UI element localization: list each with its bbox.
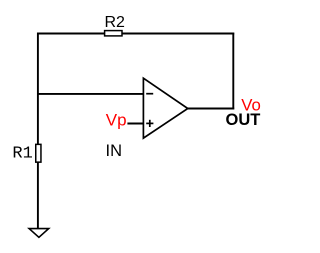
wire non-inverting input wire from Vp	[127, 123, 143, 125]
svg-text:OUT: OUT	[226, 111, 261, 129]
wire top feedback wire	[37, 33, 234, 35]
op-amp U1	[143, 78, 187, 138]
resistor R2	[105, 14, 126, 36]
svg-text:Vp: Vp	[106, 110, 127, 129]
wire inverting input wire	[38, 93, 143, 95]
svg-text:R2: R2	[105, 14, 126, 31]
wire left vertical wire	[37, 33, 39, 229]
svg-text:R1: R1	[12, 145, 32, 164]
wire output wire	[188, 108, 234, 110]
ground	[29, 229, 49, 238]
svg-text:IN: IN	[106, 142, 123, 160]
wire right vertical output-to-feedback wire	[232, 33, 234, 110]
resistor R1	[12, 144, 41, 163]
